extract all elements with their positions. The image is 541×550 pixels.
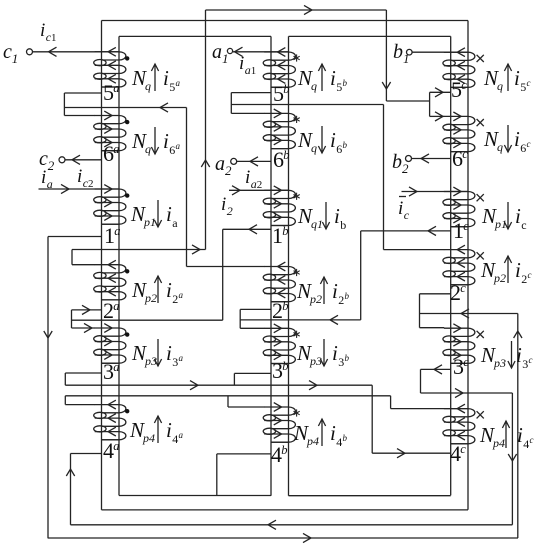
svg-text:b: b — [283, 148, 289, 162]
svg-text:i: i — [163, 66, 169, 90]
svg-text:a: a — [176, 141, 181, 151]
riser vertical x=360.7 to node 1c — [360, 231, 362, 320]
svg-text:i: i — [330, 421, 336, 445]
node 2b — [272, 298, 288, 323]
svg-text:c: c — [529, 355, 533, 365]
svg-text:a: a — [113, 360, 119, 374]
polarity dot of Np3 i3a — [125, 332, 129, 336]
svg-text:6: 6 — [169, 143, 175, 157]
svg-text:b: b — [281, 443, 287, 457]
svg-text:b: b — [392, 151, 402, 173]
node 1c — [453, 218, 469, 243]
winding Nq1 (i_b) on limb b — [263, 186, 295, 226]
svg-text:b: b — [343, 78, 348, 88]
svg-text:5: 5 — [336, 80, 342, 94]
node 6c — [452, 146, 468, 171]
wire staple to node 2a — [72, 305, 102, 314]
label i_a1 — [239, 53, 256, 77]
label i_c2 — [77, 166, 94, 190]
svg-text:i: i — [221, 194, 226, 215]
label i_c1 — [40, 20, 57, 44]
wire top bus y=10 from node-1a loop to limb-c staple — [206, 5, 387, 14]
polarity cross of Np4 i4c — [477, 411, 484, 418]
node 3c — [453, 354, 469, 379]
polarity dot of Np1 ia — [125, 193, 129, 197]
svg-text:b: b — [282, 299, 288, 313]
label Np4 up i_4a — [129, 416, 184, 446]
polarity cross of Nq i5c — [477, 55, 484, 62]
node 2a — [103, 298, 119, 323]
wire to node 4c — [372, 449, 451, 458]
svg-text:i: i — [166, 278, 172, 302]
wire 2b staple into winding Np3(b) — [240, 327, 264, 329]
svg-text:3: 3 — [338, 355, 344, 369]
svg-text:c: c — [463, 219, 469, 233]
node 5a — [103, 80, 119, 105]
node 3b — [272, 358, 288, 383]
label a1 — [212, 41, 229, 66]
staple vertical below node 3a — [64, 396, 66, 405]
drop vertical x=386.4 from top bus — [382, 10, 390, 101]
wire riser to node 1b — [223, 225, 271, 234]
drop vertical x=372.2 to wire of node 4c — [371, 385, 373, 453]
label i_2 — [221, 194, 233, 218]
staple vertical at node 5a — [63, 93, 65, 116]
label c1 — [3, 41, 18, 66]
label Nq up i_5c — [483, 64, 531, 94]
svg-text:2: 2 — [172, 292, 178, 306]
svg-text:2: 2 — [521, 272, 527, 286]
terminal a1 — [227, 47, 242, 56]
svg-text:a: a — [176, 78, 181, 88]
wire bottom bus y=509.9 limb-a-left to limb-c-right — [102, 509, 469, 511]
wire node 5b to staple — [231, 92, 271, 94]
wire staple to node 5c — [430, 88, 451, 97]
svg-text:c: c — [460, 281, 466, 295]
svg-text:i: i — [514, 66, 520, 90]
wire top bus y=36.4 limb-a-right to limb-b-left — [119, 35, 271, 37]
winding Np2 (i_2b) on limb b — [263, 262, 295, 302]
polarity cross of Np3 i3c — [477, 331, 484, 338]
svg-text:i: i — [166, 202, 172, 226]
wire from terminal a2 to node 6b — [237, 160, 271, 162]
node 4a — [103, 438, 119, 463]
svg-text:5: 5 — [169, 80, 175, 94]
winding Np4 (i_4a) on limb a — [94, 400, 126, 440]
winding Np1 (i_a) on limb a — [94, 185, 126, 225]
svg-text:2: 2 — [402, 161, 409, 176]
svg-text:a: a — [113, 439, 119, 453]
label Np3 down i_3c — [480, 341, 533, 371]
label Nq up i_5b — [297, 64, 348, 94]
svg-text:i: i — [332, 279, 338, 303]
svg-text:i: i — [239, 53, 244, 74]
wire drop into winding Np2(c) — [384, 249, 445, 251]
wire node 4b to drop — [217, 453, 271, 455]
svg-text:i: i — [40, 20, 45, 41]
label c2 — [39, 148, 55, 173]
svg-text:1: 1 — [251, 65, 257, 77]
label Np4 up i_4b — [293, 419, 348, 449]
left drop vertical x=48 to bottom bus — [44, 237, 52, 539]
terminal b2 — [406, 154, 430, 163]
wire 1a staple into winding Np2(a) — [72, 264, 95, 266]
svg-text:p2: p2 — [144, 291, 157, 305]
wire node 5a to staple — [64, 92, 101, 94]
wire 2c staple into winding Np3(c) — [420, 327, 445, 329]
svg-text:i: i — [332, 341, 338, 365]
svg-text:1: 1 — [12, 51, 18, 66]
polarity star of Np4 i4b — [293, 409, 299, 416]
label Np1 down i_a — [130, 200, 178, 230]
wire node 3b to staple — [234, 372, 271, 374]
label Np4 up i_4c — [479, 421, 534, 451]
wire top bus y=20.5 limb-a-left to limb-c-right — [102, 20, 469, 22]
wire interlink into winding Np2(b) — [187, 266, 265, 268]
polarity dot of Np4 i4a — [125, 409, 129, 413]
svg-text:a: a — [113, 142, 119, 156]
svg-text:q: q — [145, 79, 151, 93]
long wire y=395.8 to drop x=390.6 — [65, 395, 390, 397]
svg-text:3: 3 — [172, 355, 178, 369]
svg-text:p3: p3 — [309, 354, 322, 368]
svg-text:c: c — [462, 147, 468, 161]
svg-text:1: 1 — [222, 51, 229, 66]
svg-text:c: c — [461, 78, 467, 92]
svg-text:a: a — [172, 216, 178, 230]
node 1a — [104, 223, 120, 248]
polarity dot of Np2 i2a — [125, 269, 129, 273]
winding Np2 (i_2a) on limb a — [94, 260, 126, 300]
svg-text:2: 2 — [88, 178, 94, 190]
wire 5c staple into winding Nq(6c) — [430, 112, 445, 121]
svg-text:q: q — [311, 141, 317, 155]
svg-text:a: a — [179, 290, 184, 300]
svg-text:c: c — [527, 139, 531, 149]
svg-text:p2: p2 — [309, 292, 322, 306]
long wire y=385.2 from 3a staple to drop x=372.2 — [65, 381, 372, 390]
wire bottom bus y=495.5 limb-a-right to limb-b-left — [119, 495, 271, 497]
core limb c left line — [450, 36, 452, 495]
svg-text:c: c — [521, 218, 526, 232]
node 4c — [450, 441, 466, 466]
polarity star of Nq1 ib — [293, 193, 299, 200]
svg-text:i: i — [330, 128, 336, 152]
wire y=393 from 3c staple across limb c to right drop x=512.4 — [421, 388, 513, 397]
svg-text:i: i — [163, 129, 169, 153]
wire bottom bus y=524.8 — [71, 520, 513, 529]
wire y=249.5 from 1a staple to riser x=205.5 — [72, 245, 206, 254]
wire y=101 from drop x=386.4 to 5c staple — [386, 100, 429, 102]
winding Nq (i_5b) on limb b — [263, 48, 295, 88]
interlink vertical x=186.5 down to winding Np2(b) — [186, 108, 188, 267]
svg-text:a: a — [113, 81, 119, 95]
polarity cross of Np2 i2c — [477, 252, 484, 259]
winding Np4 (i_4c) on limb c — [443, 404, 475, 444]
label i_a — [41, 167, 53, 191]
svg-text:i: i — [77, 166, 82, 187]
svg-text:a: a — [179, 353, 184, 363]
svg-text:c: c — [3, 41, 12, 63]
wire staple to node 3c — [421, 365, 451, 374]
polarity star of Np2 i2b — [293, 269, 299, 276]
polarity cross of Np1 ic — [477, 194, 484, 201]
winding Np1 (i_c) on limb c — [443, 187, 475, 227]
svg-text:i: i — [514, 127, 520, 151]
svg-text:4: 4 — [336, 435, 342, 449]
node 5c — [451, 77, 467, 102]
svg-text:i: i — [166, 418, 172, 442]
svg-text:p4: p4 — [492, 436, 505, 450]
svg-text:c: c — [527, 78, 531, 88]
svg-text:2: 2 — [227, 204, 233, 218]
wire pass-through y=319.9 from 2b staple to riser x=360.7 — [240, 315, 361, 324]
svg-text:i: i — [334, 204, 340, 228]
svg-text:2: 2 — [225, 163, 232, 178]
left drop vertical x=70.5 to bottom bus — [66, 454, 74, 525]
wire pass-through y=104.5 from 5b staple to drop x=383.5 — [231, 104, 383, 106]
label Np3 down i_3b — [296, 339, 350, 369]
label Nq down i_6c — [483, 125, 531, 155]
staple vertical below node 1a — [71, 250, 73, 265]
wire node 1a to left drop — [48, 236, 102, 238]
wire top bus y=36.4 limb-b-right to limb-c-left — [289, 35, 451, 37]
label Np2 up i_2a — [131, 276, 184, 306]
winding Nq (i_6c) on limb c — [443, 112, 475, 152]
svg-text:q1: q1 — [311, 217, 323, 231]
wire from terminal a1 into winding Nq(5b) — [233, 51, 289, 53]
wire from terminal b2 to node 6c — [412, 158, 451, 160]
polarity dot of Nq i5a — [125, 56, 129, 60]
label b2 — [392, 151, 409, 176]
node 2c — [450, 280, 466, 305]
svg-text:2: 2 — [48, 158, 55, 173]
svg-text:b: b — [282, 224, 288, 238]
wire into winding Np4(c) — [391, 408, 468, 410]
drop vertical x=216.8 to bottom bus — [216, 454, 218, 496]
right drop vertical x=517.8 to bottom bus — [514, 314, 522, 539]
wire y=313.5 from 2c staple across limb c to right drop x=517.8 — [420, 309, 518, 318]
wire 5a staple into winding Nq(6a) — [64, 115, 95, 117]
wire bottom bus y=538 — [48, 533, 518, 542]
drop vertical x=390.6 — [390, 396, 392, 409]
node 6a — [103, 141, 119, 166]
wire into winding Np4(b) — [228, 406, 265, 408]
polarity star of Nq i5b — [293, 54, 299, 61]
wire input i_c into winding Np1(c) — [402, 187, 469, 196]
svg-text:b: b — [393, 41, 403, 63]
svg-text:i: i — [245, 167, 250, 188]
polarity dot of Nq i6a — [125, 120, 129, 124]
svg-text:b: b — [340, 218, 346, 232]
staple vertical at node 3a — [64, 373, 66, 385]
riser vertical x=222.7 to node 1b — [222, 229, 224, 320]
node 3a — [103, 359, 119, 384]
svg-text:b: b — [345, 291, 350, 301]
terminal c1 — [27, 49, 33, 55]
svg-text:i: i — [330, 66, 336, 90]
label b1 — [393, 41, 410, 66]
label Nq up i_5a — [131, 64, 181, 94]
winding Np2 (i_2c) on limb c — [443, 245, 475, 285]
polarity cross of Nq i6c — [477, 119, 484, 126]
svg-text:i: i — [516, 343, 522, 367]
wire into winding Np4(a) — [65, 404, 95, 406]
wire 2a staple into winding Np3(a) — [72, 323, 96, 332]
wire 5b staple into winding Nq(6b) — [231, 112, 264, 114]
terminal b1 — [407, 49, 413, 55]
terminal a2 — [231, 157, 258, 166]
staple vertical at node 2a — [71, 310, 73, 328]
svg-text:b: b — [282, 359, 288, 373]
svg-text:i: i — [515, 204, 521, 228]
staple vertical at node 3c — [420, 369, 422, 393]
svg-text:p3: p3 — [493, 356, 506, 370]
svg-text:c: c — [528, 270, 532, 280]
label i_c with macron — [398, 197, 410, 223]
wire pass-through y=107.5 from 5a staple to interlink — [64, 103, 186, 112]
svg-text:p4: p4 — [142, 431, 155, 445]
svg-text:q: q — [497, 79, 503, 93]
polarity star of Np3 i3b — [293, 331, 299, 338]
winding Np3 (i_3b) on limb b — [263, 324, 295, 364]
label a2 — [215, 153, 232, 178]
staple vertical at node 3b — [233, 373, 235, 385]
svg-text:2: 2 — [338, 293, 344, 307]
label Nq down i_6a — [131, 127, 181, 157]
winding Np3 (i_3c) on limb c — [443, 324, 475, 364]
svg-text:c: c — [404, 208, 410, 222]
svg-text:6: 6 — [336, 142, 342, 156]
staple vertical at node 2b — [239, 309, 241, 328]
svg-text:p2: p2 — [493, 271, 506, 285]
node 4b — [271, 442, 287, 467]
label Nq1 down i_b — [297, 202, 346, 232]
svg-text:b: b — [283, 82, 289, 96]
svg-text:i: i — [166, 341, 172, 365]
staple vertical below node 3b — [227, 396, 229, 407]
label Np2 up i_2b — [296, 277, 350, 307]
riser vertical x=205.5 to top bus — [201, 10, 209, 250]
label Np3 down i_3a — [131, 339, 184, 369]
terminal c2 — [59, 155, 80, 164]
staple vertical at node 5b — [230, 93, 232, 114]
svg-text:i: i — [517, 423, 523, 447]
svg-text:b: b — [343, 433, 348, 443]
polarity star of Nq i6b — [293, 116, 299, 123]
wire input i_2 into winding Nq1(b) — [229, 186, 289, 195]
label Nq down i_6b — [297, 126, 348, 156]
wire staple to node 2b — [240, 308, 271, 310]
winding Np4 (i_4b) on limb b — [263, 403, 295, 443]
node 1b — [272, 223, 288, 248]
svg-text:c: c — [530, 435, 534, 445]
wire from terminal b1 into winding Nq(5c) — [412, 51, 468, 53]
staple vertical at node 5c — [429, 92, 431, 116]
wire bottom bus y=495.7 limb-b-right to limb-c-left — [289, 495, 451, 497]
svg-text:i: i — [41, 167, 46, 188]
svg-text:p1: p1 — [143, 215, 156, 229]
svg-text:q: q — [145, 142, 151, 156]
svg-text:1: 1 — [51, 32, 57, 44]
right drop vertical x=512.4 to bottom bus — [508, 393, 516, 525]
wire from terminal c1 into winding Nq(5a) — [33, 47, 120, 56]
core limb b left line — [270, 36, 272, 495]
core limb a right line — [118, 36, 120, 495]
label Np1 down i_c — [481, 202, 527, 232]
svg-text:a: a — [179, 430, 184, 440]
svg-text:q: q — [311, 79, 317, 93]
svg-text:6: 6 — [520, 141, 526, 155]
winding Np3 (i_3a) on limb a — [94, 324, 126, 364]
svg-text:4: 4 — [523, 437, 529, 451]
svg-text:c: c — [463, 355, 469, 369]
svg-text:b: b — [343, 140, 348, 150]
svg-text:q: q — [497, 140, 503, 154]
node 5b — [273, 81, 289, 106]
svg-text:a: a — [215, 153, 225, 175]
staple vertical at node 2c — [419, 294, 421, 328]
wire pass-through y=320.2 from 2a staple to riser x=222.7 — [72, 319, 223, 321]
label i_a2 — [245, 167, 262, 191]
core limb b right line — [288, 36, 290, 495]
wire input i_a into winding Np1(a) — [39, 184, 120, 193]
wire staple to node 2c — [420, 293, 451, 295]
svg-text:p4: p4 — [306, 434, 319, 448]
svg-text:i: i — [398, 198, 403, 219]
svg-text:a: a — [212, 41, 222, 63]
wire riser to node 1c — [361, 226, 451, 235]
svg-text:5: 5 — [520, 80, 526, 94]
node 6b — [273, 147, 289, 172]
winding Nq (i_6b) on limb b — [263, 109, 295, 149]
wire node 3a to staple — [65, 372, 101, 374]
drop vertical x=383.5 to winding Np2(c) — [383, 105, 385, 250]
core limb a left line — [101, 21, 103, 510]
winding Nq (i_5a) on limb a — [94, 47, 126, 87]
winding Nq (i_6a) on limb a — [94, 111, 126, 151]
svg-text:3: 3 — [522, 357, 528, 371]
wire node 4a to left drop — [71, 453, 102, 455]
svg-text:a: a — [113, 299, 119, 313]
wire from terminal c2 to node 6a — [65, 159, 102, 161]
svg-text:a: a — [114, 224, 120, 238]
svg-text:2: 2 — [257, 179, 263, 191]
svg-text:1: 1 — [403, 51, 410, 66]
svg-text:c: c — [460, 442, 466, 456]
label Np2 up i_2c — [480, 256, 532, 286]
svg-text:4: 4 — [172, 432, 178, 446]
core limb c right line — [467, 21, 469, 510]
svg-text:i: i — [515, 258, 521, 282]
winding Nq (i_5c) on limb c — [443, 48, 475, 88]
svg-text:b: b — [345, 353, 350, 363]
